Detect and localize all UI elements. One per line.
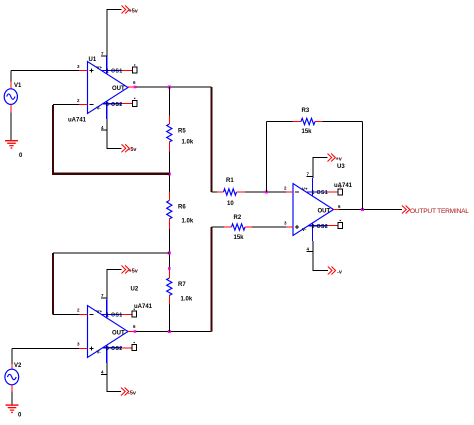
svg-text:1 OS1: 1 OS1 <box>106 313 123 319</box>
node E <box>265 191 268 194</box>
svg-text:OUT: OUT <box>318 209 331 215</box>
pin OS1 U3 <box>328 186 343 195</box>
svg-text:R3: R3 <box>302 108 310 114</box>
pin OS1 U2 <box>122 309 137 318</box>
resistor R1 <box>212 178 246 207</box>
power -5v <box>121 388 137 397</box>
wire <box>168 229 170 270</box>
wire <box>323 121 363 123</box>
node D <box>168 252 171 255</box>
terminal OUTPUT TERMINAL <box>402 206 469 216</box>
wire <box>136 86 212 88</box>
svg-text:1 OS1: 1 OS1 <box>106 69 123 75</box>
svg-text:10: 10 <box>227 201 234 207</box>
op-amp U2 <box>77 287 153 375</box>
svg-text:OUT: OUT <box>112 86 125 92</box>
svg-text:OUTPUT TERMINAL: OUTPUT TERMINAL <box>410 208 469 215</box>
resistor R2 <box>212 215 253 241</box>
node <box>134 86 137 89</box>
svg-text:R7: R7 <box>178 282 186 288</box>
source V2 <box>5 363 22 392</box>
svg-text:V2: V2 <box>14 363 22 369</box>
wire <box>107 270 122 300</box>
wire <box>265 122 267 193</box>
svg-text:1.0k: 1.0k <box>182 219 194 225</box>
power -v <box>328 267 343 276</box>
svg-text:OUT: OUT <box>112 331 125 337</box>
svg-text:U1: U1 <box>89 57 97 63</box>
svg-text:R2: R2 <box>234 215 242 221</box>
node <box>134 330 137 333</box>
wire <box>245 191 286 193</box>
svg-text:V+: V+ <box>97 309 103 314</box>
svg-text:uA741: uA741 <box>68 118 87 124</box>
svg-text:V-: V- <box>97 350 102 355</box>
ground <box>6 404 23 418</box>
resistor R3 <box>266 108 322 135</box>
power +v <box>328 154 343 163</box>
wire <box>79 314 88 316</box>
wire <box>128 331 134 333</box>
wire <box>168 87 170 116</box>
wire <box>286 191 293 193</box>
svg-text:uA741: uA741 <box>134 304 153 310</box>
svg-text:+v: +v <box>336 157 343 163</box>
node out <box>361 208 364 211</box>
wire <box>10 71 12 82</box>
power -5v <box>122 144 138 153</box>
pin OS2 U3 <box>328 220 343 229</box>
wire <box>334 209 340 211</box>
wire <box>168 305 170 332</box>
wire <box>313 158 328 179</box>
svg-text:uA741: uA741 <box>334 183 353 189</box>
ground <box>5 140 23 159</box>
resistor R7 <box>167 270 193 305</box>
wire <box>211 87 213 192</box>
svg-text:5 OS2: 5 OS2 <box>106 346 123 352</box>
svg-text:V-: V- <box>302 227 307 232</box>
svg-text:U3: U3 <box>337 164 345 170</box>
wire <box>107 10 122 57</box>
wire <box>107 119 122 148</box>
wire <box>52 173 169 175</box>
svg-text:-5v: -5v <box>128 390 137 396</box>
svg-text:+5v: +5v <box>129 269 139 275</box>
op-amp U3 <box>284 164 353 252</box>
node A <box>168 86 171 89</box>
svg-text:V+: V+ <box>302 187 308 192</box>
svg-text:R5: R5 <box>178 129 186 135</box>
pin OS2 U2 <box>122 342 137 351</box>
resistor R5 <box>167 116 194 152</box>
wire <box>12 348 79 350</box>
svg-text:5 OS2: 5 OS2 <box>106 102 123 108</box>
source V1 <box>4 82 22 113</box>
svg-text:15k: 15k <box>234 235 245 241</box>
pin OS2 U1 <box>122 98 137 107</box>
wire <box>11 392 13 405</box>
svg-text:V1: V1 <box>14 83 22 89</box>
node <box>168 267 171 270</box>
wire <box>211 227 213 332</box>
power +5v <box>122 266 139 275</box>
wire <box>11 70 79 72</box>
node B <box>168 330 171 333</box>
wire <box>79 70 88 72</box>
wire <box>10 113 12 141</box>
svg-text:5 OS2: 5 OS2 <box>312 224 329 230</box>
wire <box>52 105 54 174</box>
wire <box>362 122 364 210</box>
pin OS1 U1 <box>122 64 137 73</box>
svg-text:U2: U2 <box>131 287 139 293</box>
wire <box>136 331 212 333</box>
wire <box>286 226 293 228</box>
wire <box>313 241 328 271</box>
svg-text:V-: V- <box>97 106 102 111</box>
op-amp U1 <box>68 51 136 130</box>
power +5v <box>122 6 139 15</box>
svg-text:15k: 15k <box>302 129 313 135</box>
wire <box>168 152 170 192</box>
wire <box>53 104 79 106</box>
wire <box>53 314 79 316</box>
svg-text:V+: V+ <box>97 65 103 70</box>
node C <box>168 173 171 176</box>
wire <box>53 252 169 254</box>
wire <box>128 86 134 88</box>
svg-text:+5v: +5v <box>129 9 139 15</box>
svg-text:-5v: -5v <box>129 147 138 153</box>
wire <box>79 104 88 106</box>
svg-text:1.0k: 1.0k <box>181 297 193 303</box>
resistor R6 <box>167 192 194 230</box>
wire <box>339 209 402 211</box>
svg-text:1.0k: 1.0k <box>182 140 194 146</box>
wire <box>107 363 121 392</box>
svg-text:1 OS1: 1 OS1 <box>312 190 329 196</box>
wire <box>52 253 54 315</box>
wire <box>79 348 88 350</box>
wire <box>252 226 286 228</box>
wire <box>11 349 13 365</box>
svg-text:R6: R6 <box>178 205 186 211</box>
svg-text:R1: R1 <box>226 178 234 184</box>
